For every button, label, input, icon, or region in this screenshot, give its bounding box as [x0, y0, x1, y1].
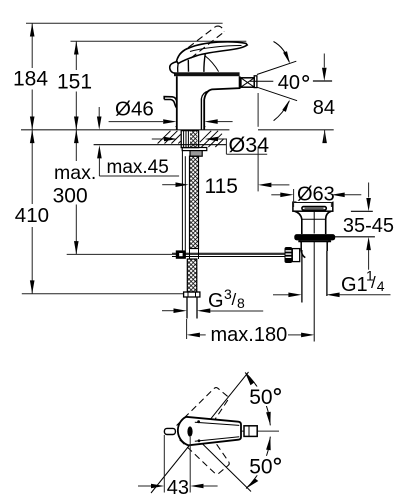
arc 40 bottom	[274, 100, 290, 121]
arc 40 top	[274, 42, 290, 64]
faucet body	[174, 72, 240, 130]
supply pipe threaded	[187, 259, 197, 292]
label 40 deg	[278, 72, 309, 94]
dimension Ø63	[271, 184, 361, 208]
reference line 184 top	[26, 22, 223, 24]
deck hatch left	[158, 131, 181, 144]
label max.45	[97, 107, 179, 178]
shank in deck	[181, 131, 198, 148]
dimension 410	[15, 130, 49, 294]
drain seal ring	[294, 234, 335, 241]
label G1 1/4	[273, 268, 391, 298]
svg-text:410: 410	[15, 204, 49, 227]
lever handle	[170, 42, 248, 74]
linkage horizontal rod / max.300 reference	[67, 253, 285, 256]
svg-text:4: 4	[377, 278, 385, 294]
plan dashed lever upper	[177, 388, 229, 442]
spray fan lines	[250, 61, 297, 100]
shank washer	[182, 148, 207, 151]
supply pipe	[187, 297, 197, 319]
svg-text:Ø46: Ø46	[115, 98, 154, 121]
dimension 35-45	[332, 183, 394, 270]
svg-text:43: 43	[167, 477, 189, 499]
svg-text:Ø34: Ø34	[229, 133, 270, 157]
label Ø46	[109, 98, 233, 124]
plan 50deg line lower	[196, 438, 251, 492]
rod clamp	[176, 250, 186, 258]
svg-text:max.180: max.180	[211, 324, 288, 346]
dimension max.300	[53, 130, 97, 255]
svg-text:84: 84	[313, 97, 335, 119]
svg-text:G1: G1	[341, 274, 368, 296]
svg-text:Ø63: Ø63	[297, 184, 335, 206]
pop-up knob	[164, 97, 177, 108]
svg-text:300: 300	[53, 184, 88, 207]
drain body neck	[295, 211, 332, 234]
svg-text:max.45: max.45	[107, 157, 169, 178]
dimension 184	[13, 23, 48, 130]
reference line 151	[71, 40, 247, 42]
plan body and lever	[178, 417, 241, 446]
label 50 top	[247, 386, 285, 409]
lever dashed raised	[180, 26, 225, 58]
svg-text:35-45: 35-45	[343, 215, 394, 237]
supply hose	[190, 156, 199, 259]
svg-text:50: 50	[249, 456, 272, 479]
drain flange Ø63	[293, 202, 333, 211]
dimension 43	[138, 435, 218, 499]
svg-text:151: 151	[57, 71, 92, 94]
svg-text:184: 184	[13, 68, 48, 91]
drain tailpipe	[302, 211, 327, 342]
hose nut	[190, 151, 202, 157]
plan aerator	[244, 426, 257, 437]
deck bottom line	[94, 144, 227, 146]
deck hatch right	[200, 131, 224, 147]
plan arc top	[245, 373, 271, 426]
plan spout nib	[164, 428, 175, 434]
dimension 151	[57, 41, 92, 130]
svg-text:G: G	[208, 290, 224, 312]
plan dashed lever lower	[179, 418, 230, 474]
drain lower body	[299, 240, 329, 257]
dimension 84	[313, 54, 335, 144]
svg-text:/: /	[371, 273, 376, 292]
aerator	[241, 76, 257, 88]
svg-text:115: 115	[205, 175, 238, 198]
label G3/8	[162, 286, 263, 313]
supply nut G3/8	[184, 292, 200, 297]
svg-text:50: 50	[249, 386, 272, 409]
label Ø34	[152, 133, 270, 157]
plan 50deg line upper	[151, 372, 249, 493]
pop-up rod vertical	[182, 151, 185, 251]
dimension 115	[162, 93, 289, 198]
label 50 bottom	[247, 456, 285, 479]
svg-text:max.: max.	[54, 162, 96, 184]
deck top line	[21, 129, 334, 131]
plan centerline	[238, 430, 279, 432]
svg-text:/: /	[232, 290, 237, 309]
svg-text:8: 8	[237, 295, 245, 311]
drain knob	[285, 247, 300, 263]
plan arc bottom	[246, 437, 271, 489]
svg-text:40: 40	[278, 72, 300, 94]
dimension max.180	[187, 319, 315, 346]
hose end line (410 reference)	[22, 293, 184, 295]
